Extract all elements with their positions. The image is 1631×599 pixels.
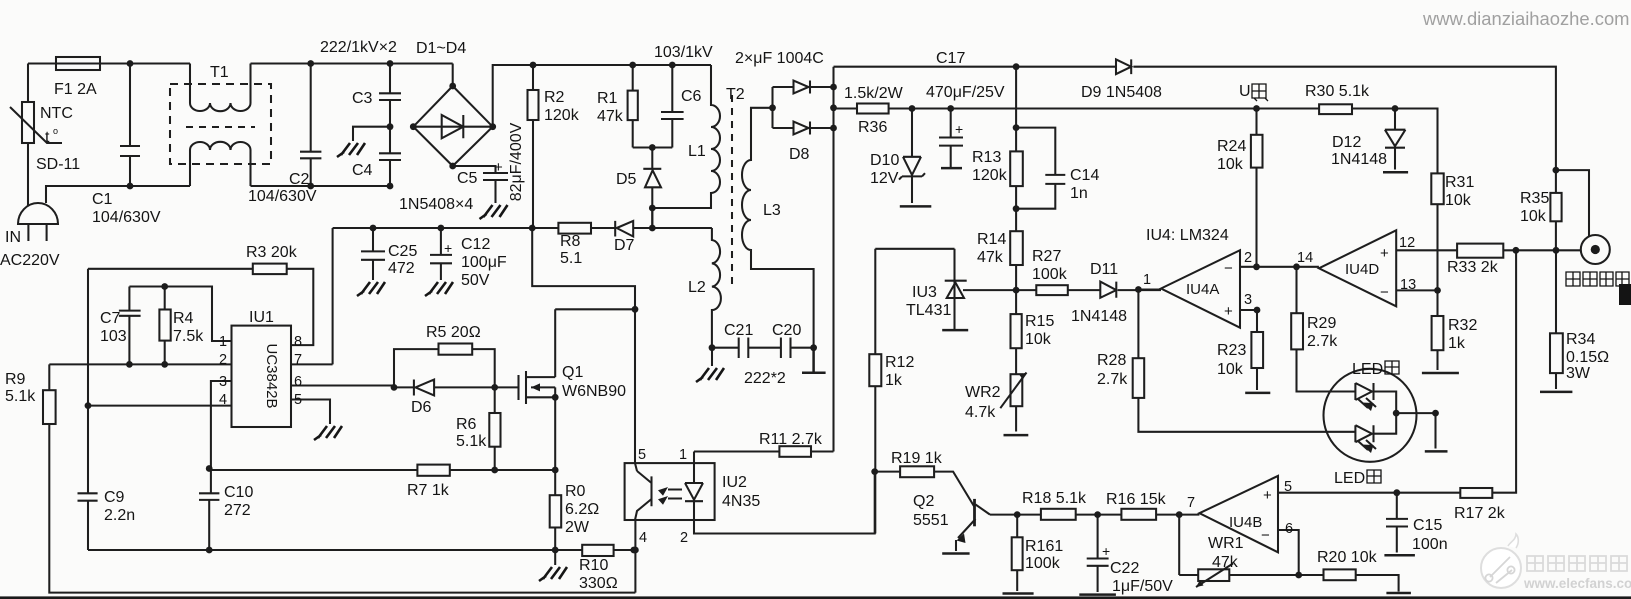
svg-text:R9: R9 (5, 371, 26, 388)
svg-text:3W: 3W (1566, 365, 1591, 382)
svg-text:IU2: IU2 (722, 474, 747, 491)
svg-text:C17: C17 (936, 50, 965, 67)
svg-text:50V: 50V (461, 272, 490, 289)
svg-text:2: 2 (680, 530, 688, 546)
svg-text:C12: C12 (461, 236, 490, 253)
svg-text:C9: C9 (104, 489, 125, 506)
svg-text:10k: 10k (1217, 361, 1244, 378)
svg-text:D6: D6 (411, 399, 432, 416)
svg-text:5: 5 (638, 447, 646, 463)
svg-text:L3: L3 (763, 202, 781, 219)
svg-text:R35: R35 (1520, 190, 1549, 207)
svg-text:D12: D12 (1332, 134, 1361, 151)
svg-text:D9 1N5408: D9 1N5408 (1081, 84, 1162, 101)
svg-text:D7: D7 (614, 237, 635, 254)
svg-text:R7 1k: R7 1k (407, 482, 450, 499)
svg-text:R8: R8 (560, 233, 581, 250)
svg-text:330Ω: 330Ω (579, 575, 618, 592)
svg-text:R10: R10 (579, 557, 608, 574)
svg-text:103: 103 (100, 328, 127, 345)
svg-text:104/630V: 104/630V (248, 188, 317, 205)
svg-text:R32: R32 (1448, 317, 1477, 334)
svg-text:120k: 120k (972, 167, 1008, 184)
svg-text:7: 7 (1187, 495, 1195, 511)
svg-text:T1: T1 (210, 64, 229, 81)
svg-text:U: U (1239, 83, 1251, 100)
svg-text:R31: R31 (1445, 174, 1474, 191)
svg-text:12V: 12V (870, 170, 899, 187)
svg-text:R33 2k: R33 2k (1447, 259, 1499, 276)
svg-text:4: 4 (639, 530, 647, 546)
svg-text:AC220V: AC220V (0, 252, 60, 269)
svg-text:L2: L2 (688, 279, 706, 296)
svg-text:470μF/25V: 470μF/25V (926, 84, 1005, 101)
svg-text:222/1kV×2: 222/1kV×2 (320, 39, 397, 56)
svg-text:R18 5.1k: R18 5.1k (1022, 490, 1087, 507)
svg-text:+: + (494, 159, 503, 176)
svg-text:472: 472 (388, 260, 415, 277)
svg-text:R0: R0 (565, 483, 586, 500)
svg-text:R16 15k: R16 15k (1106, 491, 1167, 508)
svg-text:C6: C6 (681, 88, 702, 105)
svg-text:2.7k: 2.7k (1307, 333, 1338, 350)
svg-text:−: − (1224, 260, 1233, 277)
svg-text:2: 2 (1244, 250, 1252, 266)
svg-text:R14: R14 (977, 231, 1006, 248)
svg-text:LED: LED (1352, 361, 1383, 378)
svg-text:8: 8 (294, 334, 302, 350)
svg-text:IU4A: IU4A (1186, 281, 1219, 298)
svg-text:W6NB90: W6NB90 (562, 383, 626, 400)
svg-text:R11 2.7k: R11 2.7k (759, 431, 823, 448)
svg-text:IN: IN (5, 229, 21, 246)
svg-text:100k: 100k (1032, 266, 1068, 283)
svg-text:o: o (53, 126, 58, 136)
svg-text:C1: C1 (92, 191, 113, 208)
svg-text:C20: C20 (772, 322, 801, 339)
svg-text:14: 14 (1297, 250, 1313, 266)
svg-text:5: 5 (294, 392, 302, 408)
svg-text:10k: 10k (1445, 192, 1472, 209)
svg-text:SD-11: SD-11 (36, 156, 80, 173)
svg-text:10k: 10k (1520, 208, 1547, 225)
svg-text:1μF/50V: 1μF/50V (1112, 578, 1173, 595)
svg-text:R34: R34 (1566, 331, 1595, 348)
svg-text:+: + (1102, 543, 1110, 559)
svg-text:5.1k: 5.1k (456, 433, 487, 450)
svg-text:R1: R1 (597, 90, 618, 107)
svg-text:NTC: NTC (40, 105, 73, 122)
svg-text:C21: C21 (724, 322, 753, 339)
svg-text:C2: C2 (289, 171, 310, 188)
svg-text:WR1: WR1 (1208, 535, 1244, 552)
svg-text:1: 1 (219, 334, 227, 350)
svg-text:10k: 10k (1025, 331, 1052, 348)
svg-text:R13: R13 (972, 149, 1001, 166)
svg-text:1k: 1k (885, 372, 903, 389)
svg-text:5.1k: 5.1k (5, 388, 36, 405)
svg-text:Q1: Q1 (562, 364, 583, 381)
svg-text:C22: C22 (1110, 560, 1139, 577)
svg-text:L1: L1 (688, 143, 706, 160)
svg-text:D11: D11 (1090, 261, 1118, 278)
svg-text:LED: LED (1334, 470, 1365, 487)
svg-text:+: + (1263, 487, 1272, 504)
svg-text:3: 3 (1244, 292, 1252, 308)
svg-text:120k: 120k (544, 107, 580, 124)
svg-text:R161: R161 (1025, 538, 1063, 555)
svg-text:47k: 47k (1212, 554, 1239, 571)
svg-text:1k: 1k (1448, 335, 1466, 352)
svg-text:2.7k: 2.7k (1097, 371, 1128, 388)
svg-text:R27: R27 (1032, 248, 1061, 265)
svg-text:R24: R24 (1217, 138, 1246, 155)
svg-text:2×μF 1004C: 2×μF 1004C (735, 50, 824, 67)
svg-text:IU4D: IU4D (1345, 261, 1379, 278)
svg-text:6: 6 (1285, 521, 1293, 537)
svg-text:222*2: 222*2 (744, 370, 786, 387)
svg-text:R20 10k: R20 10k (1317, 549, 1378, 566)
svg-text:1.5k/2W: 1.5k/2W (844, 85, 904, 102)
svg-text:R3 20k: R3 20k (246, 244, 298, 261)
svg-text:C10: C10 (224, 484, 253, 501)
svg-text:Q2: Q2 (913, 493, 934, 510)
svg-text:IU1: IU1 (249, 309, 274, 326)
svg-text:R4: R4 (173, 310, 194, 327)
svg-text:10k: 10k (1217, 156, 1244, 173)
svg-text:103/1kV: 103/1kV (654, 44, 713, 61)
svg-text:2W: 2W (565, 519, 590, 536)
svg-text:+: + (444, 240, 452, 256)
svg-text:100n: 100n (1412, 536, 1448, 553)
svg-text:C25: C25 (388, 243, 417, 260)
svg-text:47k: 47k (597, 108, 624, 125)
svg-text:R29: R29 (1307, 315, 1336, 332)
svg-text:www.elecfans.com: www.elecfans.com (1523, 576, 1631, 591)
svg-text:3: 3 (219, 374, 227, 390)
svg-text:13: 13 (1400, 277, 1416, 293)
svg-text:1n: 1n (1070, 185, 1088, 202)
svg-text:C5: C5 (457, 170, 478, 187)
svg-text:5.1: 5.1 (560, 250, 582, 267)
svg-text:D1~D4: D1~D4 (416, 40, 466, 57)
svg-text:7: 7 (294, 352, 302, 368)
svg-text:R15: R15 (1025, 313, 1054, 330)
svg-text:6.2Ω: 6.2Ω (565, 501, 599, 518)
svg-text:www.dianziaihaozhe.com: www.dianziaihaozhe.com (1422, 8, 1630, 29)
svg-text:6: 6 (294, 374, 302, 390)
svg-text:WR2: WR2 (965, 384, 1001, 401)
svg-text:R2: R2 (544, 89, 565, 106)
svg-text:+: + (955, 121, 963, 137)
svg-text:C14: C14 (1070, 167, 1099, 184)
svg-text:7.5k: 7.5k (173, 328, 204, 345)
svg-text:0.15Ω: 0.15Ω (1566, 349, 1609, 366)
svg-text:D10: D10 (870, 152, 899, 169)
svg-text:t: t (45, 129, 50, 146)
svg-text:82μF/400V: 82μF/400V (508, 122, 525, 201)
svg-text:T2: T2 (726, 86, 745, 103)
svg-text:R6: R6 (456, 416, 477, 433)
svg-text:IU3: IU3 (912, 284, 937, 301)
svg-text:12: 12 (1399, 235, 1415, 251)
svg-text:+: + (1380, 245, 1389, 262)
svg-text:5551: 5551 (913, 512, 949, 529)
svg-text:C4: C4 (352, 162, 373, 179)
svg-text:D5: D5 (616, 171, 637, 188)
svg-text:2: 2 (219, 352, 227, 368)
svg-text:IU4B: IU4B (1229, 514, 1262, 531)
svg-text:1: 1 (679, 447, 687, 463)
svg-text:UC3842B: UC3842B (263, 343, 280, 408)
svg-text:R17 2k: R17 2k (1454, 505, 1506, 522)
svg-text:IU4: LM324: IU4: LM324 (1146, 227, 1229, 244)
svg-text:4.7k: 4.7k (965, 404, 996, 421)
svg-text:1N4148: 1N4148 (1331, 151, 1387, 168)
svg-text:R12: R12 (885, 354, 914, 371)
svg-text:R5 20Ω: R5 20Ω (426, 324, 481, 341)
svg-text:4N35: 4N35 (722, 493, 760, 510)
svg-text:R23: R23 (1217, 342, 1246, 359)
svg-text:D8: D8 (789, 146, 810, 163)
svg-text:104/630V: 104/630V (92, 209, 161, 226)
svg-text:+: + (1224, 303, 1233, 320)
svg-text:F1 2A: F1 2A (54, 81, 97, 98)
svg-text:C7: C7 (100, 310, 121, 327)
svg-text:1N5408×4: 1N5408×4 (399, 196, 473, 213)
svg-text:R30 5.1k: R30 5.1k (1305, 83, 1370, 100)
svg-text:272: 272 (224, 502, 251, 519)
svg-text:C15: C15 (1413, 517, 1442, 534)
svg-text:R36: R36 (858, 119, 887, 136)
svg-text:1: 1 (1143, 272, 1151, 288)
svg-text:2.2n: 2.2n (104, 507, 135, 524)
svg-text:5: 5 (1284, 479, 1292, 495)
svg-text:TL431: TL431 (906, 302, 951, 319)
svg-text:100k: 100k (1025, 555, 1061, 572)
svg-text:4: 4 (219, 392, 227, 408)
svg-text:−: − (1380, 284, 1389, 301)
svg-text:C3: C3 (352, 90, 373, 107)
svg-text:R19 1k: R19 1k (891, 450, 943, 467)
svg-text:100μF: 100μF (461, 254, 507, 271)
svg-text:1N4148: 1N4148 (1071, 308, 1127, 325)
svg-text:47k: 47k (977, 249, 1004, 266)
svg-text:R28: R28 (1097, 352, 1126, 369)
